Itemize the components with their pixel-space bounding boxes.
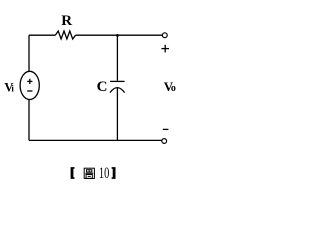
svg-text:Vi: Vi xyxy=(4,80,14,94)
wire capacitor branch lower xyxy=(116,88,118,141)
caption glyph 圖 (figure) xyxy=(84,168,94,178)
svg-text:R: R xyxy=(61,13,72,29)
svg-text:Vo: Vo xyxy=(164,79,176,94)
wire left vertical upper (corner down to source top) xyxy=(28,35,30,71)
terminal top circle xyxy=(162,33,167,38)
caption right lenticular bracket xyxy=(112,167,116,179)
resistor R1 zigzag xyxy=(55,31,75,39)
wire resistor to output terminal xyxy=(76,34,163,36)
plus sign inside source xyxy=(27,80,32,82)
svg-text:10: 10 xyxy=(99,165,109,182)
minus sign inside source xyxy=(27,90,32,92)
plus sign output top xyxy=(161,48,169,50)
wire bottom rail xyxy=(29,139,162,141)
voltage source V1 ellipse xyxy=(20,71,39,99)
svg-text:C: C xyxy=(97,79,108,95)
terminal bottom circle xyxy=(162,139,167,144)
junction node (top wire / capacitor branch) xyxy=(116,34,119,37)
wire top-left horizontal (source to resistor) xyxy=(29,34,55,36)
wire left vertical lower (source bottom to bottom rail) xyxy=(28,100,30,141)
capacitor C curved bottom plate xyxy=(110,88,125,93)
caption left lenticular bracket xyxy=(71,167,75,179)
wire capacitor branch upper xyxy=(116,35,118,80)
capacitor C top plate xyxy=(110,80,125,82)
minus sign output bottom xyxy=(163,128,169,130)
